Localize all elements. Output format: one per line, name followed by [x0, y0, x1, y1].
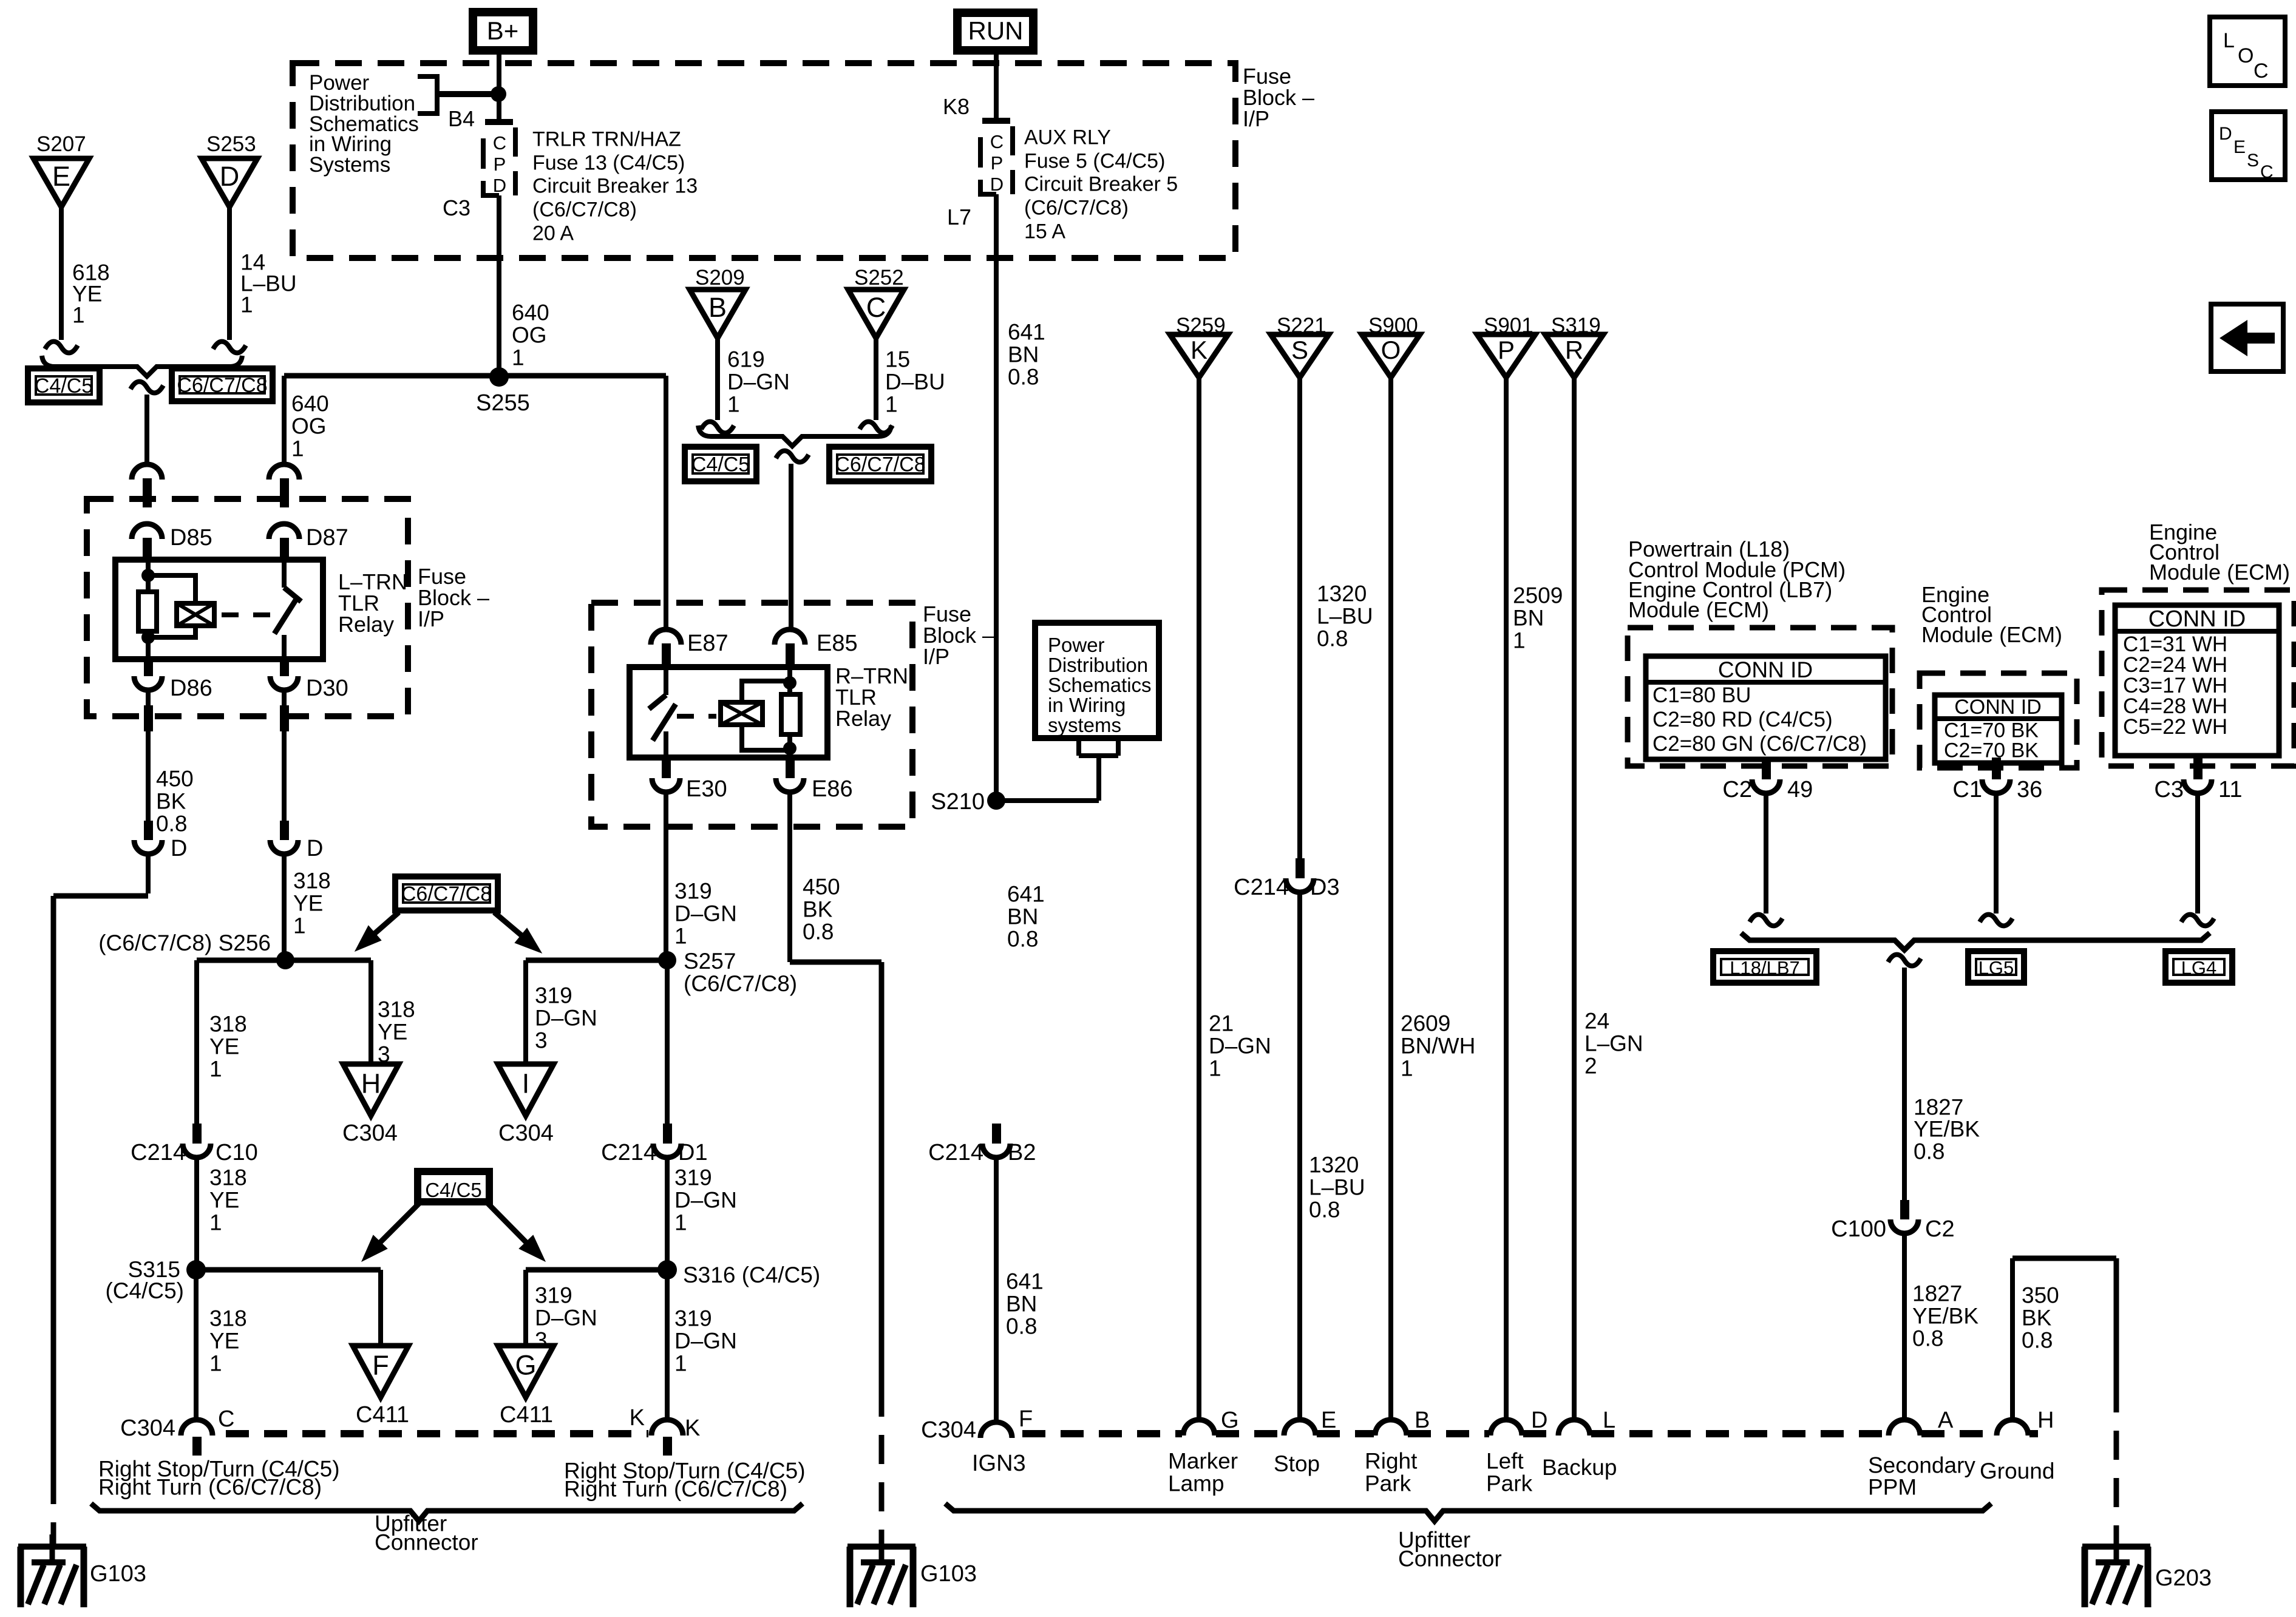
module box ECM dashed (right): [2102, 590, 2294, 766]
svg-text:L7: L7: [947, 205, 971, 229]
svg-text:S210: S210: [931, 789, 985, 815]
svg-text:in Wiring: in Wiring: [1048, 694, 1126, 716]
svg-text:0.8: 0.8: [803, 920, 834, 944]
svg-text:D30: D30: [306, 676, 348, 701]
svg-text:C3: C3: [2154, 777, 2184, 802]
svg-text:Fuse 13 (C4/C5): Fuse 13 (C4/C5): [532, 151, 685, 174]
svg-text:1: 1: [674, 1210, 687, 1235]
svg-text:C2=80 RD (C4/C5): C2=80 RD (C4/C5): [1652, 708, 1833, 731]
svg-text:319: 319: [535, 1283, 572, 1308]
svg-text:Power: Power: [1048, 634, 1105, 656]
connector B (Right Park): [1375, 1420, 1407, 1436]
svg-text:Right Turn (C6/C7/C8): Right Turn (C6/C7/C8): [564, 1477, 787, 1502]
wire: D1 to S316: [665, 1158, 670, 1261]
option box LG4: [2165, 951, 2232, 983]
svg-text:21: 21: [1209, 1011, 1234, 1036]
svg-text:(C4/C5): (C4/C5): [105, 1278, 184, 1303]
connector D (left): [144, 821, 153, 840]
svg-text:619: 619: [727, 347, 765, 372]
node: R-TRN coil bottom junction: [783, 742, 796, 755]
svg-text:S: S: [2247, 151, 2259, 171]
svg-text:C5=22 WH: C5=22 WH: [2123, 715, 2227, 739]
linkage dashes (R-TRN): [677, 714, 716, 719]
svg-text:YE: YE: [209, 1188, 239, 1213]
svg-text:Right Turn (C6/C7/C8): Right Turn (C6/C7/C8): [98, 1475, 322, 1500]
splice H triangle to C304: [343, 1064, 399, 1116]
svg-text:A: A: [1938, 1408, 1954, 1433]
svg-text:L18/LB7: L18/LB7: [1730, 957, 1800, 978]
relay R-TRN coil loop: [742, 681, 790, 750]
svg-text:C: C: [2254, 59, 2269, 83]
svg-text:P: P: [991, 152, 1004, 174]
svg-text:24: 24: [1584, 1009, 1609, 1034]
svg-text:(C6/C7/C8): (C6/C7/C8): [532, 198, 637, 221]
svg-text:(C6/C7/C8): (C6/C7/C8): [684, 971, 797, 996]
connector D86: [144, 659, 153, 676]
svg-text:1320: 1320: [1317, 581, 1367, 606]
connector E87: [651, 629, 681, 645]
wire: S315 to C304 C: [194, 1270, 199, 1421]
power distribution schematics box (mid): [1035, 623, 1159, 738]
svg-text:K: K: [1190, 336, 1207, 364]
svg-text:319: 319: [674, 1306, 712, 1331]
svg-text:C411: C411: [500, 1402, 553, 1428]
option box C6/C7/C8 (top left): [172, 368, 273, 401]
arrow: C6/C7/C8 to S256: [375, 912, 399, 934]
svg-text:319: 319: [535, 983, 572, 1008]
wire: merged feed to fuse block D85: [144, 395, 149, 465]
connector: inline at fuse block (left col): [132, 464, 162, 480]
wire: 1320 L-BU lower: [1297, 892, 1302, 1421]
svg-text:1320: 1320: [1309, 1153, 1359, 1178]
wire: RUN feed down through AUX RLY fuse: [994, 53, 999, 118]
dashed connector row C304 (right): [1022, 1430, 1182, 1437]
svg-text:P: P: [1498, 336, 1515, 364]
svg-text:C304: C304: [498, 1120, 554, 1146]
svg-text:640: 640: [291, 392, 329, 416]
svg-text:D: D: [990, 174, 1004, 195]
wire: S316 left branch to G: [526, 1267, 667, 1273]
tick: D86 wire crossing block edge: [144, 705, 153, 731]
brace: option merge (S209/S252): [698, 425, 891, 446]
bracket: PD box to S210: [1001, 738, 1118, 801]
svg-text:1827: 1827: [1912, 1281, 1962, 1306]
wire: S255 horizontal run: [284, 373, 666, 379]
svg-text:1: 1: [240, 293, 253, 317]
svg-text:BN: BN: [1007, 904, 1038, 929]
connector G (Marker Lamp): [1183, 1420, 1215, 1436]
svg-text:C2: C2: [1925, 1216, 1955, 1242]
svg-text:1: 1: [1401, 1056, 1413, 1081]
relay L-TRN coil resistor: [138, 592, 157, 631]
svg-text:P: P: [494, 154, 506, 175]
option box C4/C5 (mid): [685, 447, 756, 481]
svg-text:L: L: [1603, 1408, 1615, 1433]
svg-text:D–GN: D–GN: [535, 1006, 597, 1031]
linkage dashes (L-TRN): [222, 612, 273, 617]
connector C1 36 (ECM mid): [1992, 758, 2001, 779]
node: coil bottom junction: [141, 631, 155, 644]
wire: S257 left branch to I: [526, 958, 667, 963]
svg-text:1: 1: [727, 392, 740, 417]
relay L-TRN switch: [282, 560, 287, 588]
relay L-TRN coil loop: [148, 575, 195, 637]
svg-text:C411: C411: [356, 1402, 409, 1428]
node: R-TRN coil top junction: [783, 676, 796, 690]
svg-text:BK: BK: [2022, 1306, 2052, 1331]
wire: PCM C2 to brace: [1764, 793, 1768, 914]
svg-text:Lamp: Lamp: [1168, 1471, 1224, 1496]
svg-text:Marker: Marker: [1168, 1449, 1238, 1474]
wire: left col to ground run: [146, 855, 151, 893]
svg-text:YE: YE: [209, 1329, 239, 1354]
connector C3 11 (ECM right): [2193, 756, 2203, 779]
svg-text:S316 (C4/C5): S316 (C4/C5): [683, 1263, 820, 1287]
svg-text:C: C: [493, 132, 506, 154]
tick: D30 wire crossing block edge: [280, 705, 289, 731]
svg-text:B: B: [1415, 1408, 1430, 1433]
wire: secondary PPM feed: [1902, 968, 1907, 1200]
connector L (Backup): [1558, 1420, 1590, 1436]
svg-text:450: 450: [156, 767, 194, 792]
wire: S255 run down to E87: [664, 376, 668, 631]
option box C6/C7/C8 (mid): [829, 447, 931, 481]
node S257 splice: [658, 951, 676, 969]
svg-text:318: 318: [209, 1012, 247, 1037]
svg-text:D87: D87: [306, 525, 348, 551]
svg-text:G103: G103: [920, 1561, 977, 1587]
svg-text:0.8: 0.8: [1007, 927, 1038, 952]
svg-text:3: 3: [535, 1028, 548, 1053]
svg-text:F: F: [372, 1350, 389, 1381]
wire: ECM C1 to brace: [1994, 793, 1999, 914]
svg-text:D–GN: D–GN: [674, 901, 737, 926]
svg-text:O: O: [1381, 336, 1401, 364]
svg-text:Connector: Connector: [375, 1530, 478, 1555]
wire: 619 D-GN from S209: [715, 337, 720, 420]
svg-text:C214: C214: [928, 1140, 983, 1165]
brace: option merge C4/C5 vs C6/C7/C8 (left): [42, 356, 242, 376]
svg-text:C1=80 BU: C1=80 BU: [1652, 683, 1751, 707]
node S315 splice: [186, 1260, 206, 1280]
svg-text:Relay: Relay: [835, 706, 891, 731]
wire: S257 to C214 D1: [665, 960, 670, 1124]
wire: 618 YE from S207: [59, 207, 64, 340]
svg-text:318: 318: [293, 869, 331, 893]
svg-text:G: G: [515, 1350, 536, 1381]
hook: under S252: [860, 422, 892, 433]
svg-text:BN: BN: [1008, 342, 1039, 367]
wire: 14 L-BU from S253: [227, 207, 232, 340]
svg-text:BN/WH: BN/WH: [1401, 1034, 1475, 1059]
svg-text:3: 3: [535, 1328, 548, 1353]
wire: dashed drop to G103 (mid): [879, 1388, 885, 1546]
legend box LOC: [2210, 17, 2285, 86]
svg-text:Module (ECM): Module (ECM): [2149, 560, 2290, 585]
svg-text:D: D: [493, 175, 506, 196]
hook: below S209/S252 brace: [776, 451, 809, 463]
svg-text:15: 15: [885, 347, 910, 372]
svg-text:K: K: [685, 1415, 700, 1441]
connector D (Left Park): [1490, 1420, 1522, 1436]
svg-text:YE: YE: [293, 891, 323, 916]
svg-text:RUN: RUN: [968, 16, 1024, 45]
svg-text:E: E: [1321, 1408, 1336, 1433]
relay L-TRN box: [115, 560, 323, 659]
svg-text:Connector: Connector: [1398, 1547, 1502, 1571]
svg-text:C304: C304: [120, 1415, 175, 1441]
svg-text:I/P: I/P: [923, 644, 949, 669]
svg-text:PPM: PPM: [1868, 1475, 1917, 1500]
svg-text:E85: E85: [817, 631, 858, 656]
terminal B+: [473, 12, 533, 50]
dashed connector row C304 (left): [226, 1430, 648, 1437]
arrow: C4/C5 to S316: [487, 1203, 526, 1242]
svg-text:0.8: 0.8: [1309, 1198, 1340, 1222]
svg-text:LG5: LG5: [1978, 957, 2014, 978]
svg-text:D: D: [220, 161, 240, 192]
svg-text:C: C: [866, 292, 886, 323]
svg-text:L–BU: L–BU: [1309, 1175, 1365, 1200]
svg-text:Right: Right: [1365, 1449, 1418, 1474]
relay L-TRN solenoid box-X: [177, 603, 214, 626]
svg-text:(C6/C7/C8): (C6/C7/C8): [1024, 196, 1129, 219]
brace: module option merge: [1741, 933, 2210, 950]
wire: S315 right branch to F: [196, 1267, 381, 1273]
svg-text:LG4: LG4: [2181, 957, 2217, 978]
node: coil top junction: [141, 569, 155, 582]
svg-text:1: 1: [72, 303, 85, 328]
ground G103 (left): [18, 1544, 86, 1550]
connector C214 B2: [992, 1124, 1001, 1144]
svg-text:B: B: [708, 292, 727, 323]
fuse block I/P dashed outline (top): [293, 63, 1235, 258]
svg-text:318: 318: [209, 1165, 247, 1190]
svg-text:AUX RLY: AUX RLY: [1024, 126, 1111, 149]
wire: 21 D-GN Marker Lamp: [1197, 378, 1201, 1421]
wire: 318 YE to connector D (right): [282, 731, 287, 821]
wire: S255 down to D87 column: [282, 376, 287, 465]
svg-text:C100: C100: [1831, 1216, 1886, 1242]
svg-text:C4/C5: C4/C5: [691, 453, 750, 476]
svg-text:C: C: [2260, 162, 2274, 182]
option box C4/C5 (top left): [28, 368, 100, 402]
svg-text:1: 1: [293, 914, 306, 938]
connector D30: [280, 659, 289, 676]
svg-text:641: 641: [1007, 882, 1045, 907]
wire: merged to E85: [789, 464, 793, 631]
connector C2 49 (PCM): [1762, 759, 1771, 779]
svg-text:TRLR TRN/HAZ: TRLR TRN/HAZ: [532, 127, 681, 151]
option pointer box C4/C5 (lower mid): [418, 1171, 489, 1202]
svg-text:H: H: [2037, 1408, 2054, 1433]
svg-text:C: C: [218, 1406, 234, 1432]
svg-text:B2: B2: [1008, 1140, 1036, 1165]
svg-text:0.8: 0.8: [1008, 365, 1039, 390]
wire: S256 right branch to H: [285, 958, 371, 963]
svg-text:B4: B4: [448, 106, 475, 131]
fuse block I/P dashed outline (L-TRN relay): [87, 499, 408, 716]
svg-text:1: 1: [1209, 1056, 1221, 1081]
connector: inline at fuse block (D87 col): [269, 464, 299, 480]
svg-text:0.8: 0.8: [1912, 1326, 1943, 1351]
svg-text:1: 1: [291, 436, 304, 461]
fuse: TRLR TRN/HAZ CPD: [485, 119, 513, 125]
svg-text:F: F: [1019, 1406, 1033, 1432]
brace: Upfitter Connector (left): [91, 1503, 803, 1521]
svg-text:YE: YE: [378, 1020, 407, 1045]
connector C214 C10: [192, 1124, 202, 1144]
hook: wire break under S253: [213, 342, 246, 353]
wire: 15 D-BU from S252: [874, 337, 878, 420]
svg-text:D1: D1: [678, 1140, 708, 1165]
svg-text:G203: G203: [2155, 1565, 2212, 1591]
svg-text:OG: OG: [512, 323, 547, 348]
svg-text:1: 1: [512, 345, 525, 370]
svg-text:1: 1: [209, 1210, 222, 1235]
svg-text:Relay: Relay: [338, 612, 394, 637]
relay R-TRN coil line: [787, 667, 792, 758]
svg-text:C6/C7/C8: C6/C7/C8: [835, 453, 925, 476]
svg-text:IGN3: IGN3: [972, 1451, 1026, 1476]
option box L18/LB7: [1713, 951, 1816, 983]
svg-text:OG: OG: [291, 414, 327, 439]
wire: 2509 BN Left Park: [1504, 378, 1509, 1421]
arrow: C4/C5 to S315: [380, 1203, 419, 1242]
svg-text:350: 350: [2022, 1283, 2059, 1308]
svg-text:Park: Park: [1365, 1471, 1411, 1496]
svg-text:BK: BK: [156, 789, 186, 814]
svg-text:BK: BK: [803, 897, 833, 922]
svg-text:CONN ID: CONN ID: [1954, 696, 2042, 719]
connector C304 F (IGN3): [980, 1422, 1012, 1438]
connector C304 K: [651, 1420, 683, 1436]
svg-text:36: 36: [2017, 777, 2042, 802]
svg-text:(C6/C7/C8) S256: (C6/C7/C8) S256: [98, 931, 271, 955]
hook: wire break under S207: [45, 342, 78, 353]
module box PCM dashed: [1628, 628, 1892, 766]
svg-text:L–GN: L–GN: [1584, 1031, 1643, 1056]
svg-text:C214: C214: [1234, 875, 1289, 900]
svg-text:0.8: 0.8: [1914, 1139, 1944, 1164]
fuse: AUX RLY CPD: [982, 118, 1010, 124]
svg-text:D–GN: D–GN: [1209, 1034, 1271, 1059]
svg-text:Park: Park: [1486, 1471, 1533, 1496]
wire: B+ feed down to S255 splice: [497, 54, 501, 119]
connector C214 D3: [1296, 858, 1305, 878]
svg-text:D–BU: D–BU: [885, 370, 945, 395]
connector D (right): [280, 821, 289, 840]
svg-text:D: D: [1531, 1408, 1547, 1433]
node: power distribution tap junction on B+ feed: [491, 86, 506, 102]
svg-text:319: 319: [674, 879, 712, 904]
svg-text:S255: S255: [476, 390, 530, 416]
svg-text:C3: C3: [443, 195, 470, 220]
svg-text:1: 1: [885, 392, 898, 417]
relay R-TRN solenoid box-X: [721, 702, 763, 725]
svg-text:Backup: Backup: [1542, 1455, 1617, 1480]
svg-text:C214: C214: [601, 1140, 656, 1165]
svg-text:15 A: 15 A: [1024, 220, 1065, 243]
node S256 splice: [276, 951, 294, 969]
svg-text:E87: E87: [687, 631, 729, 656]
option pointer box C6/C7/C8 (mid): [395, 876, 498, 910]
terminal RUN: [957, 13, 1033, 50]
svg-text:D–GN: D–GN: [535, 1306, 597, 1331]
svg-text:C6/C7/C8: C6/C7/C8: [177, 374, 267, 397]
connector D87: [269, 524, 299, 539]
svg-text:D3: D3: [1310, 875, 1340, 900]
svg-text:0.8: 0.8: [1006, 1314, 1037, 1339]
hook: ECM right wire break: [2181, 915, 2214, 926]
wire: S256 left branch: [197, 958, 285, 963]
legend box DESC: [2212, 112, 2285, 180]
connector D85: [132, 524, 162, 539]
svg-text:0.8: 0.8: [156, 812, 187, 836]
svg-text:Stop: Stop: [1274, 1451, 1320, 1476]
wire: D30 to fuse block edge: [282, 690, 287, 705]
wire: 350 BK ground loop: [2010, 1258, 2015, 1421]
svg-text:Circuit Breaker 5: Circuit Breaker 5: [1024, 172, 1178, 195]
svg-text:BN: BN: [1513, 606, 1544, 631]
ground G103 (mid): [847, 1544, 915, 1550]
svg-text:R: R: [1565, 336, 1583, 364]
svg-text:C2: C2: [1722, 777, 1752, 802]
svg-text:C214: C214: [131, 1140, 186, 1165]
svg-text:D–GN: D–GN: [674, 1188, 737, 1213]
svg-text:I/P: I/P: [418, 606, 444, 631]
wire: IGN3 feed lower: [994, 1158, 999, 1422]
svg-text:1: 1: [674, 1351, 687, 1376]
svg-text:Secondary: Secondary: [1868, 1453, 1975, 1478]
svg-text:Left: Left: [1486, 1449, 1524, 1474]
wire: 450 BK to connector D (left): [146, 731, 151, 821]
svg-text:0.8: 0.8: [1317, 626, 1348, 651]
svg-text:Ground: Ground: [1980, 1459, 2054, 1483]
hook: below module brace: [1888, 955, 1921, 966]
hook: below left option brace: [131, 382, 163, 393]
svg-text:Module (ECM): Module (ECM): [1921, 622, 2062, 647]
wire: tap from power distribution schematics bracket: [440, 91, 494, 97]
legend box back-arrow: [2211, 304, 2283, 371]
svg-text:BN: BN: [1006, 1292, 1037, 1317]
CONN ID table (ECM mid): [1935, 695, 2062, 763]
svg-text:E: E: [52, 161, 70, 192]
svg-text:L: L: [2223, 29, 2235, 52]
svg-text:K: K: [630, 1405, 645, 1431]
svg-text:E86: E86: [812, 776, 853, 802]
svg-text:C2=80 GN (C6/C7/C8): C2=80 GN (C6/C7/C8): [1652, 732, 1867, 756]
svg-text:S257: S257: [684, 949, 736, 974]
hook: PCM wire break: [1750, 915, 1782, 926]
svg-text:B+: B+: [487, 16, 519, 45]
wire: 319 D-GN from E30 to S257: [664, 792, 668, 960]
relay R-TRN coil resistor: [781, 694, 800, 734]
svg-text:1: 1: [209, 1351, 222, 1376]
svg-text:H: H: [361, 1068, 381, 1099]
wire: down to S256: [282, 855, 287, 960]
wire: D86 to fuse block edge: [146, 690, 151, 705]
svg-text:Systems: Systems: [309, 153, 390, 177]
svg-text:20 A: 20 A: [532, 222, 574, 245]
wire: dashed drop to G103 (left): [51, 1475, 56, 1546]
svg-text:2: 2: [1584, 1054, 1597, 1079]
svg-text:E30: E30: [686, 776, 727, 802]
svg-text:318: 318: [378, 997, 415, 1022]
svg-text:S: S: [1291, 336, 1308, 364]
connector E (Stop): [1284, 1420, 1316, 1436]
CONN ID table (ECM right): [2115, 605, 2279, 756]
